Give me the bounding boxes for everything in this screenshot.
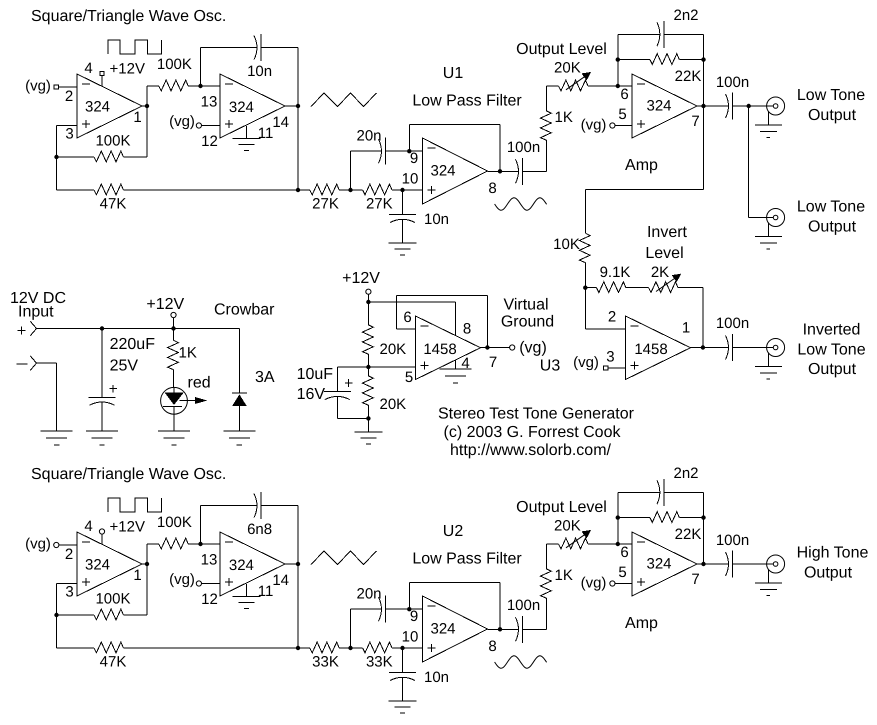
resistor 100K series (147, 543, 159, 545)
capacitor 6n8 integrator feedback (201, 505, 255, 507)
svg-text:7: 7 (691, 571, 699, 588)
wire LPF feedback (408, 125, 410, 152)
svg-text:+12V: +12V (110, 61, 145, 78)
junction LPF input node (296, 646, 300, 650)
svg-text:(vg): (vg) (25, 78, 51, 95)
capacitor 2n2 (618, 33, 657, 35)
power +12V pin4 terminal (99, 529, 104, 534)
svg-text:(vg): (vg) (581, 117, 607, 134)
wire pin5 U3 (368, 366, 415, 368)
junction feedback node (54, 613, 58, 617)
svg-text:33K: 33K (366, 654, 393, 671)
svg-text:47K: 47K (100, 654, 127, 671)
svg-text:20n: 20n (356, 586, 381, 603)
svg-text:Ground: Ground (501, 314, 554, 331)
wire U3 output (481, 347, 510, 349)
wire to inverted jack (733, 347, 767, 349)
triangle wave symbol (311, 551, 377, 565)
potentiometer 20K output level (546, 85, 558, 87)
svg-text:20K: 20K (380, 341, 407, 358)
svg-text:8: 8 (488, 638, 496, 655)
junction triangle output node (296, 104, 300, 108)
svg-text:6n8: 6n8 (247, 521, 272, 538)
capacitor 100n LPF out (516, 617, 519, 641)
svg-text:100n: 100n (716, 74, 749, 91)
wire crowbar (238, 329, 240, 394)
wire amp output (697, 105, 729, 107)
svg-text:7: 7 (691, 113, 699, 130)
junction invert node (583, 286, 587, 290)
svg-text:22K: 22K (675, 68, 702, 85)
op-amp 324 oscillator comparator (U2) (77, 532, 142, 596)
power +12V pin4 terminal (100, 71, 104, 75)
square wave symbol (108, 40, 161, 54)
plus input symbol (17, 330, 25, 332)
wire feedback right rail (703, 34, 705, 106)
svg-text:3A: 3A (255, 369, 275, 386)
svg-text:100n: 100n (716, 532, 749, 549)
svg-text:Stereo Test Tone Generator: Stereo Test Tone Generator (438, 406, 635, 423)
wire pin5 (615, 125, 632, 127)
node (vg) pin12 terminal (196, 123, 201, 128)
svg-text:Low Tone: Low Tone (797, 342, 865, 359)
wire vg divider ground (367, 418, 369, 432)
ground LED (158, 430, 190, 432)
svg-text:1K: 1K (179, 345, 197, 362)
svg-text:20K: 20K (554, 518, 581, 535)
wire inverter output (691, 347, 729, 349)
wire pin13 (201, 85, 221, 87)
svg-text:2n2: 2n2 (673, 465, 698, 482)
svg-text:red: red (188, 375, 211, 392)
svg-text:324: 324 (430, 621, 455, 638)
svg-text:9.1K: 9.1K (600, 264, 631, 281)
resistor 20K lower (367, 367, 369, 376)
capacitor 20n (350, 609, 352, 648)
capacitor 10n to ground (402, 648, 404, 673)
wire 100n to 1K (523, 628, 547, 630)
wire pin5 (615, 583, 632, 585)
node (vg) input terminal (54, 85, 58, 89)
wire integrator feedback right (297, 48, 299, 106)
svg-text:13: 13 (201, 94, 218, 111)
resistor 47K (57, 189, 95, 191)
svg-text:3: 3 (606, 349, 614, 366)
wire pin2 (59, 544, 77, 546)
wire pin8 supply (368, 301, 455, 303)
svg-text:100n: 100n (507, 597, 540, 614)
svg-text:U3: U3 (540, 358, 561, 375)
svg-text:10n: 10n (424, 669, 449, 686)
wire pin10 (403, 647, 423, 649)
junction 22K left (616, 57, 620, 61)
junction feedback node (54, 155, 58, 159)
svg-text:1458: 1458 (634, 341, 667, 358)
op-amp 324 integrator (U1) (220, 74, 285, 138)
wire pin12 (202, 125, 221, 127)
svg-text:Low Tone: Low Tone (797, 87, 865, 104)
svg-text:2: 2 (65, 88, 73, 105)
wire integrator output (285, 105, 298, 107)
svg-text:1458: 1458 (423, 341, 456, 358)
capacitor 20n (350, 151, 352, 190)
junction amp output node (701, 562, 705, 566)
junction 10uF bottom node (366, 416, 370, 420)
wire pin3 inv (608, 367, 625, 369)
svg-text:25V: 25V (110, 358, 139, 375)
wire integrator feedback right (297, 506, 299, 564)
op-amp 324 low pass filter U2 (423, 596, 488, 662)
op-amp 324 amplifier (632, 74, 697, 138)
capacitor 2n2 (618, 491, 657, 493)
svg-text:13: 13 (201, 552, 218, 569)
ground crowbar (223, 430, 255, 432)
svg-text:324: 324 (85, 557, 110, 574)
junction output node A (145, 562, 149, 566)
junction jack branch (747, 104, 751, 108)
wire pin6 (618, 85, 632, 87)
node (vg) pin12 terminal (196, 581, 201, 586)
svg-text:4: 4 (84, 518, 92, 535)
junction LPF input node (296, 188, 300, 192)
svg-text:Output: Output (808, 219, 857, 236)
svg-text:10: 10 (402, 629, 419, 646)
junction vg divider node (366, 365, 370, 369)
svg-text:2K: 2K (651, 264, 669, 281)
junction 22K right (701, 515, 705, 519)
wire pin13 (201, 543, 221, 545)
resistor 22K (618, 59, 650, 61)
junction 20n branch (348, 646, 352, 650)
svg-text:+12V: +12V (146, 296, 184, 313)
svg-text:(vg): (vg) (581, 575, 607, 592)
svg-text:1K: 1K (555, 109, 573, 126)
wire amp output (697, 563, 729, 565)
resistor 1K (545, 544, 547, 569)
svg-text:Square/Triangle Wave Osc.: Square/Triangle Wave Osc. (31, 8, 226, 25)
svg-text:2n2: 2n2 (673, 7, 698, 24)
svg-text:3: 3 (65, 126, 73, 143)
resistor 22K (618, 517, 650, 519)
svg-text:Output: Output (808, 107, 857, 124)
svg-text:324: 324 (229, 99, 254, 116)
input connector plus (30, 321, 36, 328)
wire pin2 invert (585, 328, 625, 330)
svg-text:100K: 100K (95, 591, 130, 608)
svg-text:324: 324 (85, 99, 110, 116)
junction pin13 node (198, 84, 202, 88)
resistor 47K (57, 647, 95, 649)
svg-text:11: 11 (258, 583, 274, 600)
svg-text:6: 6 (620, 544, 628, 561)
power terminal +12V VG (366, 289, 371, 294)
junction 20n branch (348, 188, 352, 192)
svg-text:324: 324 (646, 98, 671, 115)
svg-text:20n: 20n (356, 128, 381, 145)
capacitor 220uF 25V (101, 329, 103, 398)
wire integrator output (285, 563, 298, 565)
svg-text:Virtual: Virtual (503, 297, 548, 314)
svg-text:324: 324 (646, 556, 671, 573)
svg-text:10: 10 (402, 171, 419, 188)
wire plus input rail (37, 328, 240, 330)
node (vg) pin3 terminal inv (604, 366, 608, 370)
junction +12V VG node (366, 300, 370, 304)
resistor 100K series (147, 85, 159, 87)
wire LED to ground (173, 414, 175, 431)
wire feedback right rail (703, 492, 705, 564)
wire amp out to 10K (703, 106, 705, 189)
svg-text:Level: Level (645, 245, 683, 262)
svg-text:16V: 16V (297, 386, 326, 403)
svg-text:12: 12 (201, 591, 218, 608)
wire LPF feedback (408, 583, 410, 610)
wire feedback left rail (617, 34, 619, 86)
svg-text:10K: 10K (553, 236, 580, 253)
op-amp 1458 virtual ground buffer U3 (416, 316, 481, 380)
sine wave symbol (495, 656, 547, 668)
ground pin11 (246, 584, 248, 597)
junction 22K right (701, 57, 705, 61)
junction 220uF node (100, 326, 104, 330)
svg-text:33K: 33K (312, 654, 339, 671)
svg-text:(vg): (vg) (169, 113, 195, 130)
svg-text:9: 9 (410, 150, 418, 167)
wire LPF output (488, 628, 519, 630)
capacitor 10uF 16V (337, 366, 368, 368)
wire pin3 (57, 583, 78, 585)
junction output node A (145, 104, 149, 108)
svg-text:1: 1 (133, 567, 141, 584)
svg-text:6: 6 (620, 86, 628, 103)
resistor 9.1K (585, 287, 596, 289)
svg-text:47K: 47K (100, 196, 127, 213)
ground LPF (389, 242, 417, 244)
svg-text:1K: 1K (555, 567, 573, 584)
node (vg) pin5 terminal (610, 581, 615, 586)
capacitor 100n inverted out (726, 336, 729, 360)
junction LPF output node (498, 169, 502, 173)
node (vg) output terminal (510, 345, 515, 350)
svg-text:4: 4 (84, 60, 92, 77)
svg-text:Invert: Invert (647, 224, 688, 241)
op-amp 324 low pass filter U1 (423, 138, 488, 204)
svg-text:6: 6 (403, 309, 411, 326)
svg-text:5: 5 (405, 369, 413, 386)
junction triangle output node (296, 562, 300, 566)
capacitor 100n output (726, 552, 729, 576)
resistor 20K upper (367, 302, 369, 325)
junction pin6 node (616, 542, 620, 546)
output jack low tone 2 (767, 209, 785, 227)
wire pin2 (59, 86, 77, 88)
square wave symbol (108, 498, 161, 512)
svg-text:3: 3 (65, 584, 73, 601)
svg-text:100K: 100K (95, 133, 130, 150)
ground input minus (41, 430, 73, 432)
svg-text:+12V: +12V (342, 270, 380, 287)
junction 10n branch (400, 188, 404, 192)
svg-text:12: 12 (201, 133, 218, 150)
wire feedback left rail (617, 492, 619, 544)
svg-text:Crowbar: Crowbar (214, 302, 275, 319)
svg-text:Amp: Amp (625, 157, 658, 174)
potentiometer 2K invert level (641, 287, 649, 289)
svg-text:5: 5 (618, 564, 626, 581)
plus polarity mark 10uF (345, 382, 353, 384)
svg-text:2: 2 (608, 309, 616, 326)
wire output to feedback (142, 105, 147, 107)
svg-text:(vg): (vg) (169, 571, 195, 588)
wire LPF output (488, 170, 519, 172)
capacitor 100n output (726, 94, 729, 118)
minus input symbol (17, 363, 28, 365)
input connector minus (30, 356, 36, 363)
svg-text:Inverted: Inverted (803, 322, 861, 339)
svg-text:+12V: +12V (110, 519, 145, 536)
svg-text:Input: Input (18, 304, 54, 321)
svg-text:10uF: 10uF (297, 366, 334, 383)
wire to low tone jack 1 (733, 105, 767, 107)
capacitor 10n to ground (402, 190, 404, 215)
ground pin11 (246, 126, 248, 139)
svg-text:22K: 22K (675, 526, 702, 543)
svg-text:U2: U2 (443, 523, 464, 540)
capacitor 10n integrator feedback (201, 47, 255, 49)
diode 3A crowbar (232, 392, 247, 394)
output jack inverted (767, 339, 785, 357)
junction pin9 node (407, 607, 411, 611)
wire minus input (37, 362, 57, 364)
svg-text:Low Pass Filter: Low Pass Filter (412, 93, 522, 110)
resistor 10K (584, 189, 586, 233)
svg-text:http://www.solorb.com/: http://www.solorb.com/ (450, 442, 612, 459)
ground LPF (389, 700, 417, 702)
svg-text:324: 324 (229, 557, 254, 574)
svg-text:10n: 10n (424, 211, 449, 228)
svg-text:(vg): (vg) (573, 354, 599, 371)
svg-text:1: 1 (682, 320, 690, 337)
LED light arrow (180, 400, 197, 402)
svg-text:20K: 20K (554, 60, 581, 77)
resistor 100K feedback (57, 614, 95, 616)
svg-text:11: 11 (258, 125, 274, 142)
junction pin9 node (407, 149, 411, 153)
svg-text:8: 8 (463, 321, 471, 338)
svg-text:Output: Output (808, 361, 857, 378)
svg-text:Output: Output (804, 565, 853, 582)
svg-text:10n: 10n (247, 63, 272, 80)
wire pin3 (57, 125, 78, 127)
svg-text:100K: 100K (157, 514, 192, 531)
svg-text:(vg): (vg) (519, 340, 547, 357)
svg-text:1: 1 (133, 109, 141, 126)
svg-text:Output Level: Output Level (516, 41, 607, 58)
wire output to feedback (142, 563, 147, 565)
svg-text:14: 14 (272, 572, 289, 589)
svg-text:7: 7 (489, 354, 497, 371)
op-amp 324 amplifier (632, 532, 697, 596)
svg-text:27K: 27K (312, 196, 339, 213)
svg-text:100n: 100n (507, 139, 540, 156)
svg-text:(c) 2003 G. Forrest Cook: (c) 2003 G. Forrest Cook (444, 424, 622, 441)
svg-text:27K: 27K (366, 196, 393, 213)
wire pin10 (403, 189, 423, 191)
junction U3 output node (485, 345, 489, 349)
resistor 1K (545, 86, 547, 111)
ground VG divider (354, 431, 382, 433)
potentiometer 20K output level (546, 543, 558, 545)
svg-text:324: 324 (430, 163, 455, 180)
wire U3 feedback (486, 295, 488, 347)
svg-text:14: 14 (272, 114, 289, 131)
wire crowbar to ground (238, 406, 240, 431)
node (vg) input terminal (54, 542, 59, 547)
svg-text:Low Pass Filter: Low Pass Filter (412, 551, 522, 568)
output jack low tone 1 (767, 97, 785, 115)
svg-text:5: 5 (618, 106, 626, 123)
resistor 1K LED (173, 329, 175, 341)
resistor 33K LPF first (298, 647, 310, 649)
svg-text:Low Tone: Low Tone (797, 199, 865, 216)
wire pin6 (618, 543, 632, 545)
svg-text:220uF: 220uF (110, 336, 156, 353)
svg-text:100n: 100n (716, 315, 749, 332)
junction 22K left (616, 515, 620, 519)
svg-text:Square/Triangle Wave Osc.: Square/Triangle Wave Osc. (31, 466, 226, 483)
resistor 100K feedback (57, 156, 95, 158)
wire pin12 (202, 583, 221, 585)
svg-text:8: 8 (488, 180, 496, 197)
LED red indicator (161, 387, 188, 414)
ground pin4 U3 (455, 360, 457, 369)
junction LPF output node (498, 627, 502, 631)
svg-text:9: 9 (410, 608, 418, 625)
ground 220uF (86, 430, 118, 432)
svg-text:Amp: Amp (625, 615, 658, 632)
node (vg) pin5 terminal (610, 123, 615, 128)
junction inverter output node (701, 345, 705, 349)
svg-text:100K: 100K (157, 56, 192, 73)
resistor 27K LPF first (298, 189, 310, 191)
op-amp 324 oscillator comparator (U1) (77, 74, 142, 138)
wire 2K to output node (702, 288, 704, 348)
svg-text:High Tone: High Tone (797, 545, 869, 562)
resistor 27K LPF second (351, 189, 363, 191)
power terminal +12V (171, 312, 176, 317)
op-amp 1458 inverter (626, 316, 691, 380)
triangle wave symbol (311, 93, 377, 107)
output jack high tone (767, 555, 785, 573)
junction pin6 node (616, 84, 620, 88)
wire to high tone jack (733, 563, 767, 565)
resistor 33K LPF second (351, 647, 363, 649)
junction +12V node (171, 326, 175, 330)
junction pin13 node (198, 542, 202, 546)
svg-text:(vg): (vg) (25, 536, 51, 553)
svg-text:Output Level: Output Level (516, 499, 607, 516)
svg-text:U1: U1 (443, 65, 464, 82)
junction amp output node (701, 104, 705, 108)
svg-text:20K: 20K (380, 396, 407, 413)
svg-text:2: 2 (65, 546, 73, 563)
wire to low tone jack 2 (748, 106, 750, 218)
capacitor 100n LPF out (516, 159, 519, 183)
op-amp 324 integrator (U2) (220, 532, 285, 596)
junction 10n branch (400, 646, 404, 650)
plus polarity mark 220uF (109, 388, 117, 390)
wire invert node down (584, 288, 586, 329)
